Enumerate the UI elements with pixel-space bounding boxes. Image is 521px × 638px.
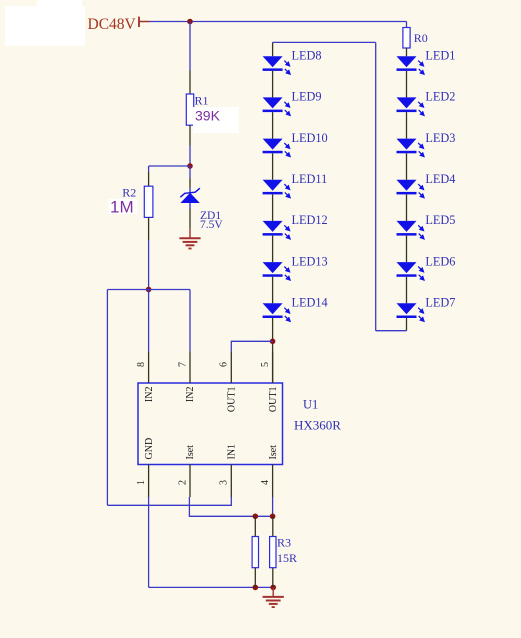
wire node to R2 — [149, 165, 190, 167]
LED LED8 — [263, 56, 290, 74]
svg-text:7.5V: 7.5V — [200, 219, 223, 231]
svg-text:IN2: IN2 — [185, 387, 196, 403]
LED LED3 — [397, 139, 424, 157]
wire node2 horizontal — [107, 289, 190, 291]
wire LED7 bottom — [406, 318, 408, 331]
svg-text:LED11: LED11 — [292, 172, 328, 186]
wire pin2 down — [189, 497, 272, 516]
wire LED6 cathode — [406, 277, 408, 304]
svg-text:IN2: IN2 — [144, 387, 155, 403]
svg-text:6: 6 — [219, 362, 230, 367]
svg-text:LED9: LED9 — [292, 90, 322, 104]
LED LED14 — [263, 303, 290, 321]
wire node to ZD1 — [189, 166, 191, 178]
svg-text:DC48V: DC48V — [88, 16, 137, 33]
pin 5 stub — [272, 351, 274, 383]
svg-text:7: 7 — [177, 362, 188, 367]
ground zener — [179, 229, 200, 249]
svg-text:HX360R: HX360R — [294, 418, 341, 433]
svg-text:LED2: LED2 — [425, 90, 455, 104]
value 1M — [109, 198, 138, 217]
svg-text:LED8: LED8 — [292, 48, 322, 62]
wire LED8 column top — [273, 41, 376, 43]
svg-text:OUT1: OUT1 — [268, 387, 279, 413]
pin 3 stub — [230, 465, 232, 498]
junction R3a top — [253, 514, 259, 520]
wire top rail DC48V — [150, 21, 407, 23]
DC48V power net label — [5, 0, 137, 46]
pin 4 stub — [272, 465, 274, 498]
LED LED11 — [263, 180, 290, 198]
wire LED11 cathode — [272, 194, 274, 221]
wire LED9 cathode — [272, 112, 274, 139]
LED LED4 — [397, 180, 424, 198]
svg-text:2: 2 — [177, 480, 188, 485]
LED LED6 — [397, 262, 424, 280]
svg-text:LED10: LED10 — [292, 131, 328, 145]
wire return to LED7 — [376, 330, 407, 332]
wire to R1 — [189, 22, 191, 71]
wire LED2 cathode — [406, 112, 408, 139]
pin 6 stub — [230, 351, 232, 383]
junction R3a bottom — [253, 585, 259, 591]
ground bottom — [263, 587, 284, 607]
svg-text:R1: R1 — [195, 94, 209, 108]
wire LED14 to pin5 — [272, 318, 274, 383]
svg-text:3: 3 — [219, 480, 230, 485]
junction OUT1 — [270, 339, 276, 345]
junction top rail — [187, 19, 193, 25]
svg-text:Iset: Iset — [268, 445, 279, 460]
svg-text:4: 4 — [260, 480, 271, 485]
wire into LED8 — [272, 42, 274, 56]
resistor R3 — [270, 516, 276, 587]
LED LED9 — [263, 97, 290, 115]
svg-text:39K: 39K — [195, 108, 221, 124]
LED LED13 — [263, 262, 290, 280]
svg-text:15R: 15R — [277, 551, 297, 565]
wire R1 to node — [189, 146, 191, 167]
svg-text:LED14: LED14 — [292, 295, 328, 309]
svg-text:LED3: LED3 — [425, 131, 455, 145]
svg-text:GND: GND — [144, 438, 155, 460]
wire LED3 cathode — [406, 153, 408, 179]
wire pin1 GND down — [148, 497, 150, 587]
LED LED7 — [397, 303, 424, 321]
wire left vertical to IN1 — [106, 290, 108, 506]
resistor R2 — [144, 166, 153, 240]
op-amp U1 HX360R body — [138, 383, 283, 465]
svg-text:R3: R3 — [277, 536, 291, 550]
wire pin6 to junction — [231, 341, 272, 351]
svg-text:LED1: LED1 — [425, 48, 455, 62]
svg-text:LED12: LED12 — [292, 213, 328, 227]
wire LED1 cathode — [406, 71, 408, 98]
svg-text:LED6: LED6 — [425, 254, 455, 268]
pin 1 stub — [148, 465, 150, 498]
wire LED13 cathode — [272, 277, 274, 304]
LED LED2 — [397, 97, 424, 115]
wire LED4 cathode — [406, 194, 408, 221]
LED LED12 — [263, 221, 290, 239]
power port — [139, 17, 150, 27]
wire node2 to pin8 — [148, 290, 150, 352]
svg-text:OUT1: OUT1 — [227, 387, 238, 413]
zener diode ZD1 — [180, 178, 200, 229]
resistor R1 — [186, 71, 193, 146]
resistor R3a — [252, 516, 258, 587]
svg-text:R0: R0 — [414, 31, 428, 45]
junction node zener — [187, 163, 193, 169]
svg-text:U1: U1 — [303, 398, 318, 412]
wire pin4 down — [272, 497, 274, 516]
pin 8 stub — [148, 351, 150, 383]
value 39K — [193, 107, 239, 133]
wire LED5 cathode — [406, 236, 408, 263]
pin 7 stub — [189, 351, 191, 383]
LED LED1 — [397, 56, 424, 74]
svg-text:Iset: Iset — [185, 445, 196, 460]
wire pin3 IN1 down-left — [107, 497, 231, 505]
svg-text:LED4: LED4 — [425, 172, 455, 186]
LED LED10 — [263, 139, 290, 157]
svg-text:5: 5 — [260, 362, 271, 367]
wire R2 to node2 — [148, 240, 150, 290]
LED LED5 — [397, 221, 424, 239]
svg-text:LED5: LED5 — [425, 213, 455, 227]
junction R3b bottom — [270, 585, 276, 591]
wire LED12 cathode — [272, 236, 274, 263]
wire bottom rail — [149, 586, 274, 588]
svg-text:1: 1 — [136, 480, 147, 485]
resistor R0 — [403, 22, 410, 57]
svg-text:IN1: IN1 — [227, 444, 238, 460]
wire LED8 cathode — [272, 71, 274, 98]
pin 2 stub — [189, 465, 191, 498]
svg-text:8: 8 — [136, 362, 147, 367]
wire to pin7 — [189, 290, 191, 352]
wire LED10 cathode — [272, 153, 274, 179]
svg-text:1M: 1M — [110, 198, 134, 217]
junction R3b top — [270, 514, 276, 520]
svg-text:LED13: LED13 — [292, 254, 328, 268]
svg-text:LED7: LED7 — [425, 295, 455, 309]
junction node2 — [146, 287, 152, 293]
wire right return vertical — [375, 42, 377, 330]
